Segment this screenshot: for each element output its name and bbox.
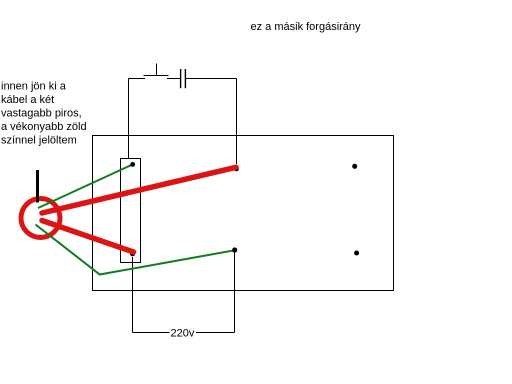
svg-text:220v: 220v [171,327,195,339]
svg-text:ez a másik forgásirány: ez a másik forgásirány [251,21,362,33]
svg-text:innen jön ki a: innen jön ki a [1,80,67,92]
svg-text:színnel jelöltem: színnel jelöltem [1,135,77,147]
svg-text:a vékonyabb zöld: a vékonyabb zöld [1,121,87,133]
svg-text:kábel a két: kábel a két [1,94,54,106]
svg-text:vastagabb piros,: vastagabb piros, [1,107,82,119]
